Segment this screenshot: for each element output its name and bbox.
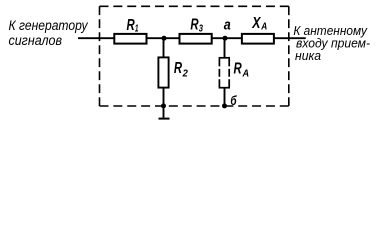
svg-text:A: A (242, 68, 249, 80)
svg-text:2: 2 (182, 68, 188, 80)
svg-text:сигналов: сигналов (9, 33, 63, 48)
svg-text:К генератору: К генератору (9, 18, 89, 33)
svg-text:ника: ника (295, 48, 321, 63)
svg-text:A: A (260, 21, 267, 33)
svg-text:R: R (234, 60, 243, 77)
svg-text:3: 3 (199, 22, 203, 34)
svg-text:1: 1 (135, 23, 139, 35)
svg-text:R: R (174, 60, 183, 77)
svg-text:a: a (224, 17, 231, 34)
svg-text:X: X (251, 15, 261, 32)
svg-text:б: б (230, 93, 237, 108)
